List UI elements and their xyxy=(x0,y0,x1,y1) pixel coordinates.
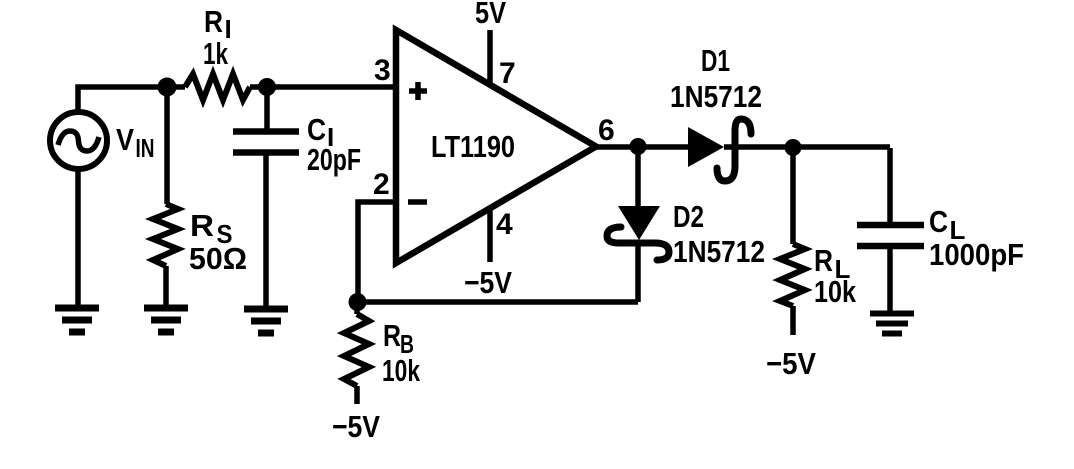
svg-text:−5V: −5V xyxy=(332,409,380,444)
svg-text:−5V: −5V xyxy=(464,265,512,300)
svg-text:R: R xyxy=(814,243,833,278)
svg-text:4: 4 xyxy=(496,208,513,241)
svg-text:R: R xyxy=(190,208,214,243)
svg-text:V: V xyxy=(116,122,134,157)
svg-text:L: L xyxy=(835,254,851,284)
svg-text:C: C xyxy=(929,204,948,239)
svg-text:1N5712: 1N5712 xyxy=(673,234,765,269)
svg-text:D2: D2 xyxy=(673,199,704,234)
svg-text:D1: D1 xyxy=(701,43,730,78)
svg-text:7: 7 xyxy=(499,57,516,90)
svg-text:B: B xyxy=(400,329,414,359)
svg-text:I: I xyxy=(327,122,334,152)
svg-text:−5V: −5V xyxy=(766,346,816,381)
svg-text:L: L xyxy=(950,215,966,245)
svg-text:R: R xyxy=(204,4,223,39)
svg-text:LT1190: LT1190 xyxy=(431,129,515,164)
svg-text:6: 6 xyxy=(598,114,615,147)
svg-text:R: R xyxy=(383,318,401,353)
svg-text:2: 2 xyxy=(373,168,390,201)
svg-text:I: I xyxy=(225,14,232,44)
svg-text:5V: 5V xyxy=(475,0,506,30)
svg-text:IN: IN xyxy=(136,133,155,163)
svg-text:S: S xyxy=(217,219,233,249)
svg-text:1000pF: 1000pF xyxy=(929,237,1024,272)
svg-text:1N5712: 1N5712 xyxy=(670,79,762,114)
svg-text:3: 3 xyxy=(374,54,391,87)
